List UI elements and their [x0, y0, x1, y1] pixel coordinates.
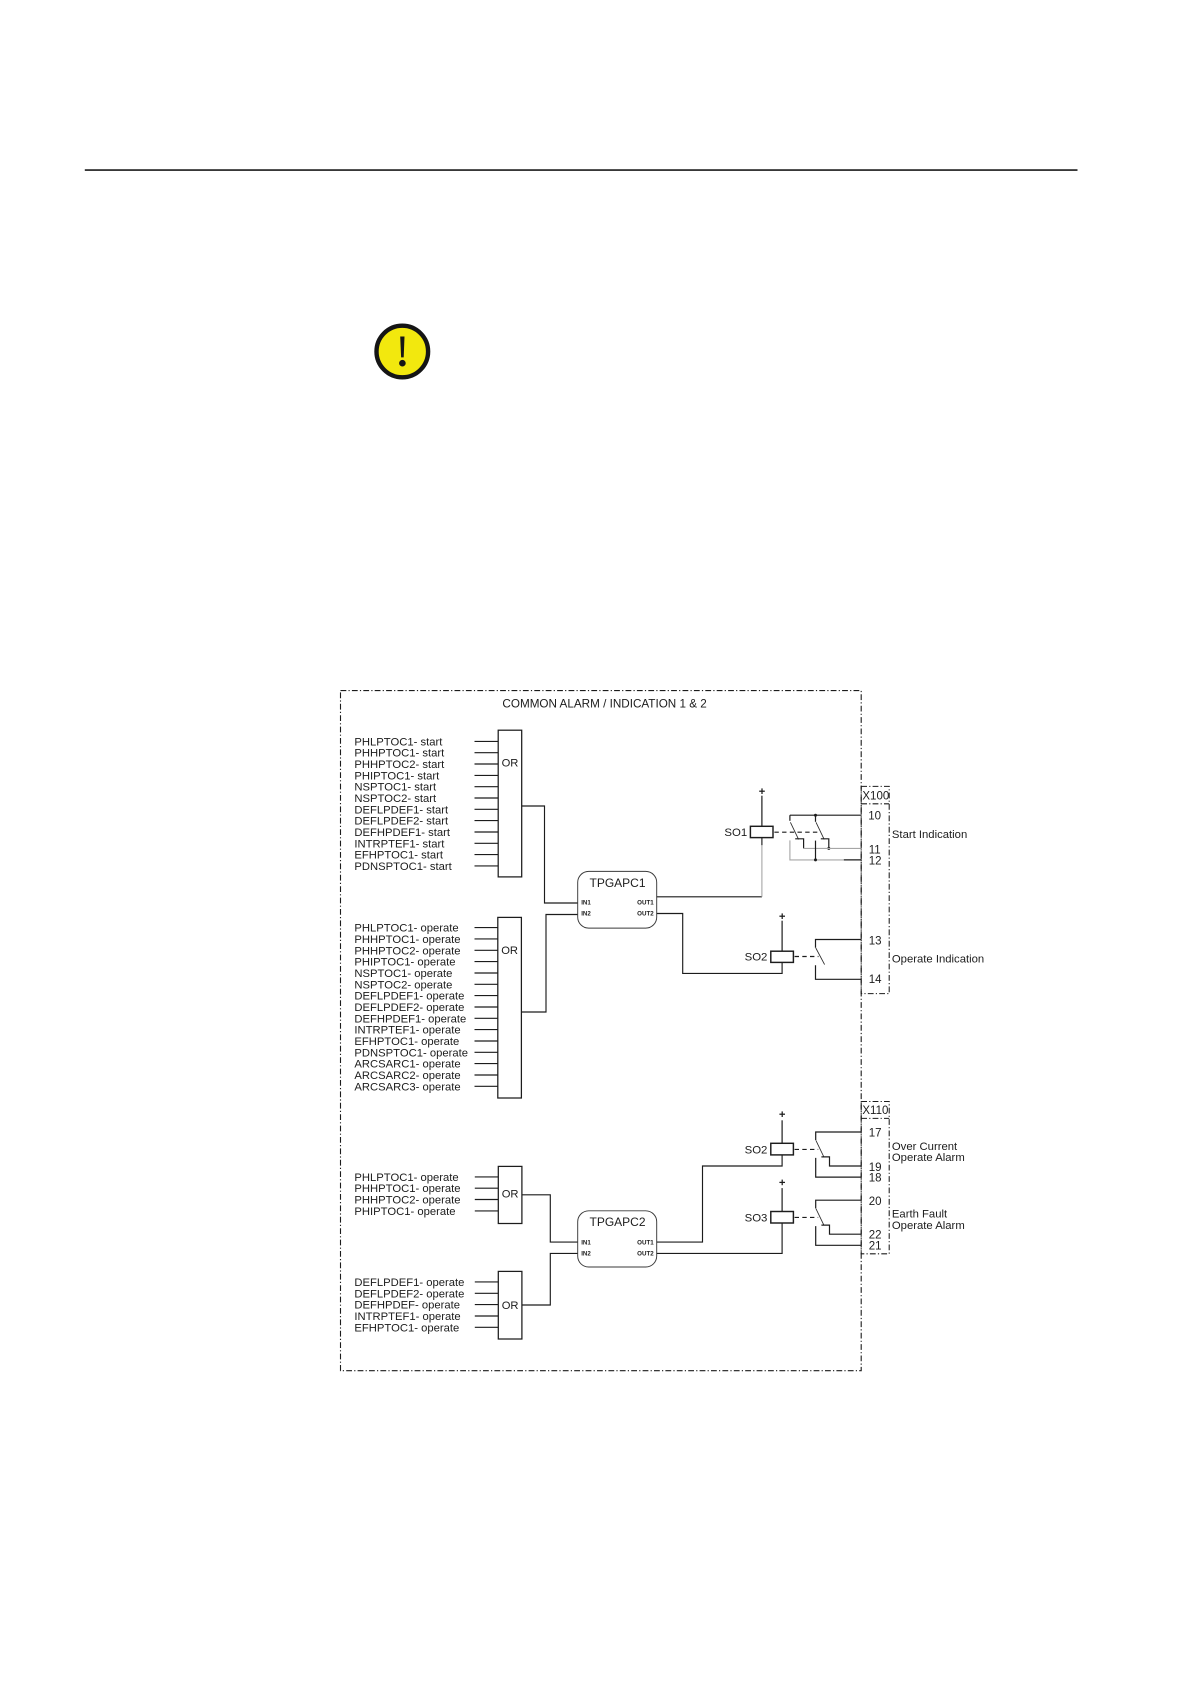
svg-text:DEFLPDEF2- operate: DEFLPDEF2- operate	[354, 1288, 464, 1300]
svg-text:Operate Indication: Operate Indication	[892, 953, 984, 965]
svg-text:DEFHPDEF1- start: DEFHPDEF1- start	[354, 827, 451, 839]
svg-text:PHHPTOC2- operate: PHHPTOC2- operate	[354, 1195, 460, 1207]
svg-text:Operate Alarm: Operate Alarm	[892, 1152, 965, 1164]
OR gate OR3	[498, 1166, 522, 1223]
svg-text:ARCSARC2- operate: ARCSARC2- operate	[354, 1070, 460, 1082]
relay coil SO1	[724, 796, 773, 839]
svg-text:OR: OR	[502, 1189, 519, 1201]
OR2 input labels	[354, 923, 468, 1094]
SO3 contact blade	[816, 1209, 824, 1225]
plus supply SO1	[759, 788, 765, 794]
svg-text:OUT2: OUT2	[637, 1251, 654, 1258]
SO3 wire to terminal 21	[816, 1226, 862, 1245]
svg-text:12: 12	[869, 855, 882, 867]
OR gate OR4	[498, 1271, 522, 1339]
diagram outer dash-dot border	[341, 691, 862, 1371]
svg-text:NSPTOC2- operate: NSPTOC2- operate	[354, 979, 452, 991]
svg-text:OUT1: OUT1	[637, 1239, 654, 1246]
wire OR3 output to TPGAPC2 IN1	[522, 1195, 578, 1242]
svg-text:SO2: SO2	[745, 1144, 768, 1156]
svg-text:DEFHPDEF1- operate: DEFHPDEF1- operate	[354, 1013, 466, 1025]
svg-text:TPGAPC2: TPGAPC2	[589, 1215, 645, 1229]
svg-text:NSPTOC1- operate: NSPTOC1- operate	[354, 968, 452, 980]
svg-text:NSPTOC2- start: NSPTOC2- start	[354, 793, 437, 805]
contact blade 1	[790, 822, 798, 839]
junction on terminal-12 line	[814, 858, 817, 861]
svg-text:ARCSARC3- operate: ARCSARC3- operate	[354, 1081, 460, 1093]
svg-text:PHHPTOC2- operate: PHHPTOC2- operate	[354, 945, 460, 957]
OR gate OR2 (operate signals)	[498, 917, 522, 1098]
relay coil SO3	[745, 1188, 794, 1224]
dashed actuator link SO2 (alarm)	[795, 1148, 819, 1150]
svg-text:Earth Fault: Earth Fault	[892, 1208, 948, 1220]
svg-text:DEFLPDEF2- start: DEFLPDEF2- start	[354, 816, 449, 828]
svg-text:14: 14	[869, 974, 882, 986]
svg-text:IN1: IN1	[581, 900, 591, 907]
svg-text:SO3: SO3	[745, 1212, 768, 1224]
svg-text:PHIPTOC1- operate: PHIPTOC1- operate	[354, 957, 455, 969]
wire TPGAPC2 OUT1 to SO2 coil	[657, 1155, 782, 1242]
svg-text:Start Indication: Start Indication	[892, 829, 967, 841]
NC step contact 1	[795, 839, 803, 849]
svg-text:INTRPTEF1- operate: INTRPTEF1- operate	[354, 1311, 460, 1323]
svg-text:PHIPTOC1- operate: PHIPTOC1- operate	[354, 1206, 455, 1218]
OR gate OR1 (start signals)	[498, 730, 522, 877]
svg-text:X100: X100	[862, 790, 889, 802]
SO3 NC step to terminal 22	[821, 1225, 861, 1234]
svg-text:PHLPTOC1- operate: PHLPTOC1- operate	[354, 923, 458, 935]
svg-text:IN2: IN2	[581, 911, 591, 918]
dashed actuator link SO2	[795, 956, 819, 958]
SO2 contact: wire to terminal 14	[816, 965, 862, 979]
svg-text:TPGAPC1: TPGAPC1	[589, 876, 645, 890]
svg-text:IN2: IN2	[581, 1251, 591, 1258]
contact blade 2	[816, 822, 824, 839]
svg-text:Operate Alarm: Operate Alarm	[892, 1220, 965, 1232]
svg-text:PHHPTOC1- operate: PHHPTOC1- operate	[354, 934, 460, 946]
terminal block X110	[861, 1102, 889, 1254]
warning icon	[377, 326, 429, 378]
header rule	[85, 169, 1078, 171]
svg-text:DEFLPDEF1- operate: DEFLPDEF1- operate	[354, 1277, 464, 1289]
svg-text:20: 20	[869, 1196, 882, 1208]
svg-text:OUT1: OUT1	[637, 900, 654, 907]
svg-text:SO1: SO1	[724, 827, 747, 839]
svg-text:OR: OR	[502, 757, 519, 769]
svg-text:10: 10	[868, 811, 881, 823]
svg-text:X110: X110	[862, 1105, 888, 1117]
svg-text:DEFHPDEF- operate: DEFHPDEF- operate	[354, 1300, 460, 1312]
SO2 alarm NC step to terminal 19	[821, 1157, 861, 1166]
SO2 alarm wire to terminal 18	[816, 1158, 862, 1177]
svg-text:PHIPTOC1- start: PHIPTOC1- start	[354, 770, 440, 782]
OR2 input wires	[475, 928, 498, 1087]
svg-text:DEFLPDEF1- operate: DEFLPDEF1- operate	[354, 991, 464, 1003]
svg-text:EFHPTOC1- operate: EFHPTOC1- operate	[354, 1322, 459, 1334]
svg-text:ARCSARC1- operate: ARCSARC1- operate	[354, 1059, 460, 1071]
svg-text:PHHPTOC2- start: PHHPTOC2- start	[354, 759, 445, 771]
svg-text:DEFLPDEF2- operate: DEFLPDEF2- operate	[354, 1002, 464, 1014]
plus supply SO2	[779, 913, 785, 919]
svg-text:DEFLPDEF1- start: DEFLPDEF1- start	[354, 804, 449, 816]
svg-text:13: 13	[869, 936, 882, 948]
SO2 contact: wire to terminal 13	[816, 940, 862, 948]
svg-text:PHLPTOC1- start: PHLPTOC1- start	[354, 736, 443, 748]
wire OR1 output to TPGAPC1 IN1	[522, 806, 578, 903]
NC step contact 2	[821, 839, 829, 849]
OR1 input labels	[354, 736, 452, 873]
junction on terminal-10 line	[814, 814, 817, 817]
OR1 input wires	[475, 741, 499, 866]
svg-text:EFHPTOC1- start: EFHPTOC1- start	[354, 850, 443, 862]
svg-text:COMMON ALARM / INDICATION 1 &: COMMON ALARM / INDICATION 1 & 2	[502, 697, 706, 710]
OR3 input wires	[475, 1177, 499, 1211]
relay coil SO2	[745, 921, 794, 964]
svg-text:PDNSPTOC1- start: PDNSPTOC1- start	[354, 861, 452, 873]
svg-text:IN1: IN1	[581, 1239, 591, 1246]
SO3 contact: wire to terminal 20	[816, 1200, 862, 1208]
svg-text:17: 17	[869, 1128, 882, 1140]
OR4 input wires	[475, 1282, 499, 1327]
junction on terminal-11 line	[827, 847, 830, 850]
svg-text:PHHPTOC1- start: PHHPTOC1- start	[354, 748, 445, 760]
svg-text:SO2: SO2	[745, 952, 768, 964]
terminal block X100	[861, 786, 889, 993]
svg-text:PHHPTOC1- operate: PHHPTOC1- operate	[354, 1183, 460, 1195]
svg-text:OR: OR	[502, 1300, 519, 1312]
wire to terminal 11 (gray)	[804, 847, 862, 849]
svg-text:Over Current: Over Current	[892, 1141, 958, 1153]
plus supply SO2 (alarm)	[779, 1111, 785, 1117]
SO2 alarm contact: wire to terminal 17	[816, 1132, 862, 1140]
relay coil SO2 (alarm)	[745, 1120, 794, 1156]
svg-text:INTRPTEF1- start: INTRPTEF1- start	[354, 838, 445, 850]
function block TPGAPC2	[578, 1211, 657, 1267]
dashed actuator link SO1	[774, 831, 818, 833]
SO2 contact blade	[816, 948, 825, 965]
svg-text:PDNSPTOC1- operate: PDNSPTOC1- operate	[354, 1047, 468, 1059]
svg-text:18: 18	[869, 1173, 882, 1185]
svg-text:21: 21	[869, 1241, 882, 1253]
svg-text:INTRPTEF1- operate: INTRPTEF1- operate	[354, 1025, 460, 1037]
wire OR2 output to TPGAPC1 IN2	[521, 915, 577, 1013]
plus supply SO3	[779, 1180, 785, 1186]
wire TPGAPC1 OUT1 to SO1 coil	[657, 838, 762, 897]
wire TPGAPC2 OUT2 to SO3 coil	[657, 1223, 782, 1254]
wire to terminal 12	[790, 840, 861, 860]
dashed actuator link SO3	[795, 1216, 819, 1218]
wire OR4 output to TPGAPC2 IN2	[522, 1253, 578, 1305]
svg-text:PHLPTOC1- operate: PHLPTOC1- operate	[354, 1172, 458, 1184]
svg-text:EFHPTOC1- operate: EFHPTOC1- operate	[354, 1036, 459, 1048]
svg-text:OR: OR	[501, 945, 518, 957]
wire TPGAPC1 OUT2 to SO2 coil	[657, 914, 782, 974]
svg-text:OUT2: OUT2	[637, 911, 654, 918]
svg-text:NSPTOC1- start: NSPTOC1- start	[354, 782, 437, 794]
OR4 input labels	[354, 1277, 464, 1334]
function block TPGAPC1	[578, 871, 657, 928]
SO2 alarm contact blade	[816, 1141, 824, 1157]
SO1 contact group: common line to terminal 10	[790, 815, 861, 822]
OR3 input labels	[354, 1172, 460, 1218]
